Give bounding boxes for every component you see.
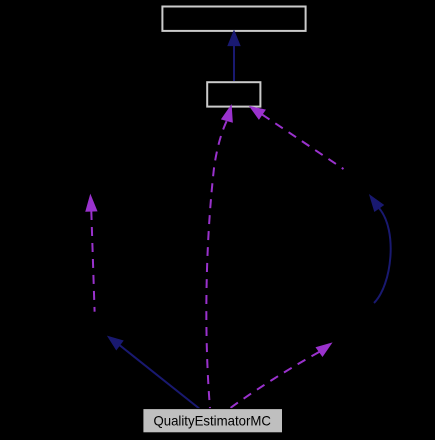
node QualityEstimatorMC (current node, grey fill) bbox=[143, 409, 283, 433]
svg-text:QualityEstimatorMC: QualityEstimatorMC bbox=[153, 413, 271, 428]
usage arrow E3 (right hidden node to middle box, darkorchid dashed) bbox=[250, 107, 344, 169]
inheritance arrow E1 (middle box to top box, midnightblue solid) bbox=[228, 31, 240, 81]
usage arrow E2 (QualityEstimatorMC to middle box, darkorchid dashed) bbox=[206, 106, 232, 409]
usage arrow E6 (QualityEstimatorMC to right hidden node, darkorchid dashed) bbox=[229, 343, 331, 409]
node box top (empty label) bbox=[162, 7, 305, 31]
usage arrow E4 (left hidden node up to left hidden node, darkorchid dashed) bbox=[86, 195, 97, 312]
inheritance arrow E5 (QualityEstimatorMC to left hidden node, midnightblue solid) bbox=[108, 337, 199, 409]
node box middle (empty label) bbox=[207, 82, 260, 106]
curved inheritance arrow E7 (right side, midnightblue solid) bbox=[370, 195, 391, 303]
